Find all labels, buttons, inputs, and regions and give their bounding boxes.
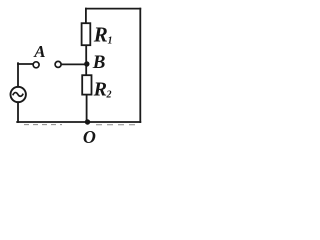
resistor R1 — [82, 23, 91, 45]
wire: left vertical from source down to bottom rail — [17, 102, 19, 122]
resistor R2 — [82, 75, 91, 94]
scan speckle under bottom rail — [24, 124, 136, 126]
svg-text:A: A — [33, 42, 45, 61]
wire: below R2 down to node O — [86, 95, 88, 122]
svg-text:R: R — [93, 78, 107, 100]
wire: between R1 and R2 through node B — [85, 45, 87, 75]
label R2 value — [93, 78, 112, 100]
node B junction dot — [84, 61, 89, 66]
svg-text:1: 1 — [108, 36, 113, 47]
wire: top stub down to R1 — [85, 9, 87, 24]
label R1 value — [93, 23, 113, 47]
AC source G1 — [11, 87, 26, 102]
wire: right vertical — [139, 9, 141, 122]
svg-text:O: O — [83, 127, 96, 147]
node O junction dot — [85, 119, 90, 124]
svg-text:R: R — [93, 23, 108, 47]
switch S terminal left (A) — [33, 62, 39, 68]
wire: top rail — [86, 8, 140, 10]
svg-text:B: B — [92, 52, 106, 73]
wire: from switch right terminal to node B — [61, 63, 86, 65]
svg-text:2: 2 — [106, 90, 112, 101]
switch S terminal right — [55, 61, 61, 67]
wire: bottom rail — [17, 121, 140, 123]
wire: left vertical from switch corner down to source — [17, 63, 19, 87]
wire: switch left stub from left corner to switch terminal A — [18, 63, 33, 65]
